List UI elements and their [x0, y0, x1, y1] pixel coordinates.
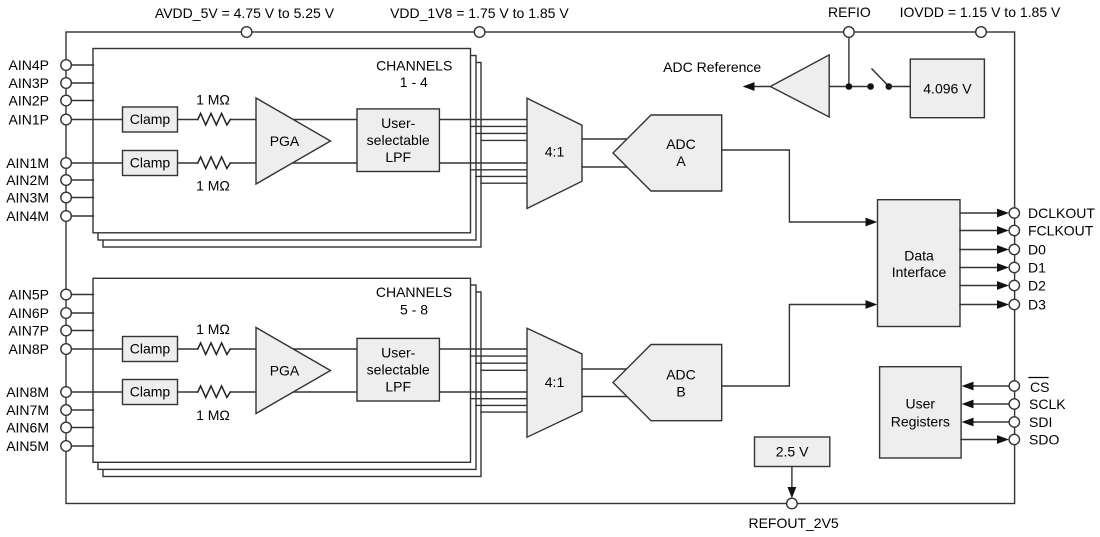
mux 4:1 A — [527, 98, 582, 208]
mux 4:1 B — [527, 328, 582, 437]
pin IOVDD — [976, 27, 987, 38]
svg-text:AIN4M: AIN4M — [6, 208, 49, 224]
svg-text:CS: CS — [1030, 379, 1049, 395]
channels 1-4 main box — [93, 49, 471, 233]
pin AIN6M — [61, 422, 72, 433]
svg-text:FCLKOUT: FCLKOUT — [1028, 223, 1094, 239]
reference source box 4.096 V — [910, 59, 984, 118]
svg-text:D3: D3 — [1028, 297, 1046, 313]
wire AIN1P path (pin to mux) — [66, 119, 198, 121]
wire SCLK input — [973, 403, 1009, 405]
ADC B pentagon — [613, 345, 722, 421]
resistor 1 Mohm (AIN1P) — [198, 113, 231, 125]
svg-text:AIN8M: AIN8M — [6, 384, 49, 400]
clamp box (AIN8M) — [123, 380, 178, 405]
svg-text:D1: D1 — [1028, 260, 1046, 276]
pin AIN1M — [61, 158, 72, 169]
svg-text:Clamp: Clamp — [130, 111, 171, 127]
pin AIN7P — [61, 325, 72, 336]
wire AIN8M path (pin to mux) — [66, 391, 198, 393]
wire ADC reference output arrow — [753, 86, 770, 88]
svg-text:Clamp: Clamp — [130, 155, 171, 171]
svg-text:CHANNELS: CHANNELS — [376, 58, 452, 74]
wire mux B to ADC B (bottom) — [582, 396, 630, 398]
svg-text:User-: User- — [381, 345, 416, 361]
svg-text:4:1: 4:1 — [545, 374, 565, 390]
channels 5-8 stacked layer 3 — [103, 292, 481, 477]
junction dot switch throw — [886, 83, 893, 90]
pin AIN7M — [61, 405, 72, 416]
junction dot node REFIO — [846, 83, 853, 90]
svg-text:5 - 8: 5 - 8 — [400, 302, 428, 318]
svg-text:1 MΩ: 1 MΩ — [196, 407, 230, 423]
svg-text:DCLKOUT: DCLKOUT — [1028, 205, 1095, 221]
svg-text:ADC: ADC — [666, 367, 696, 383]
wire bus ch7 bottom — [476, 404, 530, 406]
pin AIN8M — [61, 387, 72, 398]
pin AIN5M — [61, 441, 72, 452]
svg-text:Data: Data — [904, 247, 934, 263]
reference source box 2.5 V — [755, 437, 830, 467]
pin D3 — [1009, 299, 1019, 309]
pin AIN1P — [61, 114, 72, 125]
svg-text:AIN1M: AIN1M — [6, 155, 49, 171]
wire AIN8P path (pin to mux) — [66, 348, 198, 350]
wire bus ch6 top — [471, 355, 531, 357]
pin SDO — [1009, 434, 1019, 444]
wire ADC B output to data interface — [722, 305, 866, 387]
svg-text:Clamp: Clamp — [130, 384, 171, 400]
svg-text:selectable: selectable — [367, 362, 430, 378]
channels 1-4 stacked layer 3 — [103, 63, 481, 248]
pin SDI — [1009, 417, 1019, 427]
arrowhead into data interface (ADC B) — [866, 300, 878, 309]
wire bus ch3 top — [476, 132, 530, 134]
pin D1 — [1009, 262, 1019, 272]
data interface box — [878, 200, 961, 327]
channels 5-8 main box — [93, 278, 471, 462]
svg-text:1 - 4: 1 - 4 — [400, 74, 428, 90]
wire reference node horizontal — [829, 86, 870, 88]
svg-text:AIN5M: AIN5M — [6, 438, 49, 454]
wire bus ch8 top — [481, 369, 530, 371]
wire 2.5V to REFOUT pin — [791, 467, 793, 490]
op-amp PGA (channels 1-4) — [256, 98, 331, 184]
pin CS — [1009, 381, 1019, 391]
wire mux A to ADC A (bottom) — [582, 166, 630, 168]
wire bus ch3 bottom — [476, 175, 530, 177]
pin REFOUT_2V5 — [787, 498, 798, 509]
svg-text:LPF: LPF — [385, 149, 411, 165]
pin D2 — [1009, 280, 1019, 290]
wire CS input — [973, 385, 1009, 387]
wire ADC A output to data interface — [722, 150, 866, 222]
svg-text:SCLK: SCLK — [1029, 396, 1066, 412]
svg-text:AIN7M: AIN7M — [6, 402, 49, 418]
svg-text:PGA: PGA — [270, 133, 300, 149]
svg-text:IOVDD = 1.15 V to 1.85 V: IOVDD = 1.15 V to 1.85 V — [900, 4, 1061, 20]
pin AIN3P — [61, 78, 72, 89]
svg-text:VDD_1V8 = 1.75 V to 1.85 V: VDD_1V8 = 1.75 V to 1.85 V — [390, 5, 569, 21]
wire bus ch7 top — [476, 362, 530, 364]
svg-text:REFOUT_2V5: REFOUT_2V5 — [748, 515, 838, 531]
svg-text:AIN2P: AIN2P — [9, 93, 49, 109]
wire SDO output — [961, 439, 998, 441]
pin DCLKOUT — [1009, 208, 1019, 218]
svg-text:REFIO: REFIO — [828, 4, 871, 20]
wire D3 — [960, 304, 998, 306]
pin FCLKOUT — [1009, 225, 1019, 235]
arrowhead into data interface (ADC A) — [866, 218, 878, 227]
op-amp PGA (channels 5-8) — [256, 328, 331, 414]
op-amp reference buffer triangle — [770, 55, 829, 117]
pin AIN6P — [61, 308, 72, 319]
svg-text:AIN6P: AIN6P — [9, 305, 49, 321]
wire bus ch8 bottom — [481, 411, 530, 413]
wire D2 — [960, 285, 998, 287]
svg-text:4.096 V: 4.096 V — [923, 80, 972, 96]
svg-text:2.5 V: 2.5 V — [776, 444, 809, 460]
svg-text:D0: D0 — [1028, 242, 1046, 258]
LPF box (channels 1-4) — [357, 109, 439, 172]
wire bus ch2 top — [471, 125, 531, 127]
svg-text:User: User — [906, 396, 936, 412]
pin AIN3M — [61, 192, 72, 203]
pin D0 — [1009, 244, 1019, 254]
svg-text:selectable: selectable — [367, 132, 430, 148]
switch blade (open) — [872, 69, 887, 85]
channels 1-4 stacked layer 2 — [98, 56, 476, 241]
pin REFIO — [844, 27, 855, 38]
svg-text:SDO: SDO — [1029, 432, 1059, 448]
svg-text:PGA: PGA — [270, 363, 300, 379]
wire mux A to ADC A (top) — [582, 138, 630, 140]
resistor 1 Mohm (AIN8M) — [198, 386, 231, 398]
svg-text:4:1: 4:1 — [545, 144, 565, 160]
svg-text:AIN7P: AIN7P — [9, 323, 49, 339]
resistor 1 Mohm (AIN8P) — [198, 343, 231, 355]
LPF box (channels 5-8) — [357, 338, 439, 401]
svg-text:B: B — [676, 384, 685, 400]
svg-text:AVDD_5V = 4.75 V to 5.25 V: AVDD_5V = 4.75 V to 5.25 V — [155, 5, 335, 21]
svg-text:CHANNELS: CHANNELS — [376, 284, 452, 300]
svg-text:1 MΩ: 1 MΩ — [196, 92, 230, 108]
svg-text:User-: User- — [381, 115, 416, 131]
svg-text:AIN4P: AIN4P — [9, 57, 49, 73]
svg-text:ADC Reference: ADC Reference — [663, 59, 761, 75]
wire SDI input — [973, 421, 1009, 423]
resistor 1 Mohm (AIN1M) — [198, 157, 231, 169]
svg-text:1 MΩ: 1 MΩ — [196, 178, 230, 194]
pin AIN2M — [61, 175, 72, 186]
svg-text:Clamp: Clamp — [130, 341, 171, 357]
pin SCLK — [1009, 399, 1019, 409]
svg-text:AIN6M: AIN6M — [6, 420, 49, 436]
chip boundary rectangle (power rails / package outline) — [66, 32, 1015, 504]
pin AIN4P — [61, 60, 72, 71]
channels 5-8 stacked layer 2 — [98, 285, 476, 469]
wire bus ch4 top — [481, 139, 530, 141]
svg-text:SDI: SDI — [1029, 414, 1052, 430]
svg-text:Registers: Registers — [891, 414, 950, 430]
junction dot switch pole — [867, 83, 874, 90]
wire DCLKOUT — [960, 212, 998, 214]
wire bus ch6 bottom — [471, 398, 531, 400]
wire D0 — [960, 249, 998, 251]
wire bus ch4 bottom — [481, 182, 530, 184]
wire AIN1M path (pin to mux) — [66, 162, 198, 164]
pin VDD_1V8 — [474, 27, 485, 38]
wire switch to 4.096V box — [889, 86, 911, 88]
svg-text:1 MΩ: 1 MΩ — [196, 321, 230, 337]
wire mux B to ADC B (top) — [582, 368, 630, 370]
svg-text:ADC: ADC — [666, 136, 696, 152]
wire FCLKOUT — [960, 230, 998, 232]
clamp box (AIN1P) — [123, 107, 178, 132]
pin AIN5P — [61, 289, 72, 300]
user registers box — [880, 367, 962, 458]
pin AIN2P — [61, 95, 72, 106]
wire bus ch2 bottom — [471, 169, 531, 171]
svg-text:A: A — [676, 153, 686, 169]
svg-text:AIN5P: AIN5P — [9, 287, 49, 303]
clamp box (AIN1M) — [123, 151, 178, 176]
svg-text:LPF: LPF — [385, 378, 411, 394]
svg-text:Interface: Interface — [892, 264, 947, 280]
pin AVDD_5V — [241, 27, 252, 38]
pin AIN8P — [61, 344, 72, 355]
svg-text:AIN1P: AIN1P — [9, 112, 49, 128]
clamp box (AIN8P) — [123, 337, 178, 362]
svg-text:AIN3P: AIN3P — [9, 75, 49, 91]
svg-text:AIN3M: AIN3M — [6, 190, 49, 206]
wire REFIO vertical — [848, 37, 850, 86]
svg-text:D2: D2 — [1028, 278, 1046, 294]
svg-text:AIN2M: AIN2M — [6, 172, 49, 188]
wire D1 — [960, 267, 998, 269]
ADC A pentagon — [613, 115, 722, 191]
svg-text:AIN8P: AIN8P — [9, 341, 49, 357]
pin AIN4M — [61, 211, 72, 222]
